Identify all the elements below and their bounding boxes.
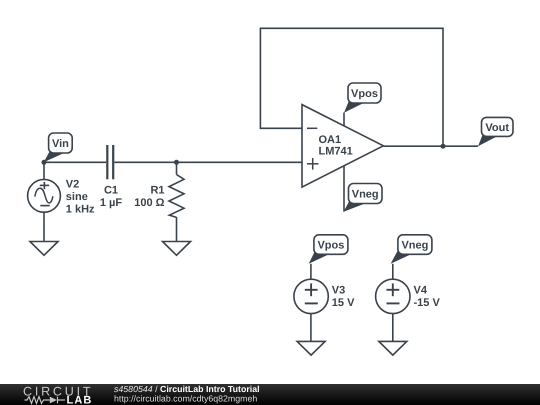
svg-text:LM741: LM741: [319, 146, 353, 158]
svg-text:V4: V4: [414, 284, 428, 296]
svg-text:Vpos: Vpos: [351, 88, 378, 100]
svg-text:LAB: LAB: [67, 394, 93, 405]
svg-text:Vout: Vout: [485, 122, 509, 134]
svg-text:sine: sine: [66, 191, 88, 203]
svg-text:-15 V: -15 V: [414, 297, 441, 309]
svg-text:V3: V3: [332, 284, 345, 296]
svg-text:15 V: 15 V: [332, 297, 355, 309]
svg-text:1 µF: 1 µF: [100, 197, 123, 209]
svg-text:http://circuitlab.com/cdty6q82: http://circuitlab.com/cdty6q82mgmeh: [114, 393, 257, 403]
svg-text:Vpos: Vpos: [317, 240, 344, 252]
svg-text:Vneg: Vneg: [401, 240, 428, 252]
svg-text:OA1: OA1: [319, 134, 342, 146]
svg-text:V2: V2: [66, 178, 79, 190]
svg-text:R1: R1: [150, 184, 164, 196]
svg-text:100 Ω: 100 Ω: [134, 197, 164, 209]
svg-text:C1: C1: [104, 184, 118, 196]
svg-text:Vneg: Vneg: [352, 188, 379, 200]
svg-text:Vin: Vin: [52, 138, 69, 150]
svg-text:1 kHz: 1 kHz: [66, 204, 95, 216]
